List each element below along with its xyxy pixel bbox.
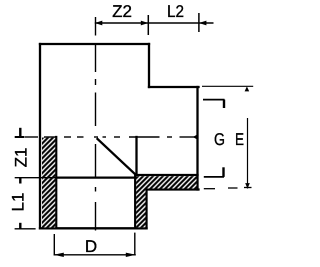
E top extension line <box>202 85 253 87</box>
bottom branch right wall inner edge <box>134 175 136 228</box>
L2 extension right <box>198 13 200 32</box>
G bracket bottom <box>204 167 224 177</box>
Z2/L2 dimension line <box>95 13 214 35</box>
right branch bore bottom edge <box>137 174 198 176</box>
Z2 arrow right <box>141 21 149 26</box>
hatching right branch lower wall <box>138 176 197 188</box>
hatching bottom-right wall <box>136 177 145 228</box>
right branch bottom outer edge <box>147 188 199 190</box>
L1 bottom stub <box>19 223 21 229</box>
centerline end arrow at right face <box>193 134 199 140</box>
E dimension line <box>247 118 249 189</box>
E arrow top <box>245 86 250 91</box>
E arrow bottom <box>245 183 250 189</box>
horizontal centerline <box>15 136 195 138</box>
top face <box>40 43 149 45</box>
socket shoulder <box>56 176 136 178</box>
Z1 dimension <box>19 128 21 184</box>
Z1 top stub <box>19 128 21 138</box>
Z2 arrow left <box>95 21 103 26</box>
left outer wall <box>39 44 41 228</box>
D arrow left <box>54 253 64 257</box>
svg-text:E: E <box>235 130 244 149</box>
svg-text:L2: L2 <box>167 2 184 21</box>
D extension right <box>134 233 136 256</box>
vertical centerline <box>95 17 97 231</box>
top branch right wall <box>148 44 150 87</box>
D extension left <box>53 234 55 256</box>
E bottom extension dash-dot <box>204 188 252 189</box>
D arrow right <box>126 253 136 257</box>
L1 dimension <box>19 223 21 229</box>
body outline <box>40 44 199 228</box>
right end face <box>196 87 198 190</box>
bore left edge <box>55 137 57 228</box>
svg-text:Z1: Z1 <box>12 148 31 168</box>
section diagonal <box>98 139 137 175</box>
D dimension <box>54 233 136 256</box>
shoulder extension line <box>15 177 56 179</box>
bore right edge upper <box>135 137 137 175</box>
right branch top outer edge <box>149 86 199 88</box>
Z2 extension right <box>147 15 149 35</box>
D dimension line <box>54 254 136 256</box>
svg-text:Z2: Z2 <box>112 2 132 21</box>
bottom branch right outer wall <box>145 190 147 229</box>
G bracket top <box>203 100 225 108</box>
svg-text:L1: L1 <box>9 193 28 212</box>
L2 arrow right (outside) <box>199 21 207 26</box>
Z1 bottom stub <box>19 178 21 184</box>
svg-text:D: D <box>85 237 97 256</box>
svg-text:G: G <box>214 130 225 149</box>
bottom face extension tick <box>15 228 36 230</box>
section inner lines <box>56 137 197 228</box>
bottom face <box>40 227 147 229</box>
hatching left wall <box>42 138 55 228</box>
